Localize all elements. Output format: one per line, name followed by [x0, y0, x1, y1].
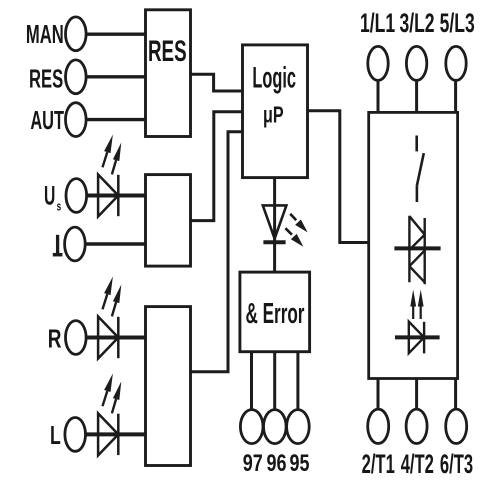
block RES (reset logic) [146, 10, 191, 137]
wire Error to terminal 95 [296, 352, 299, 410]
optocoupler light arrows [412, 305, 414, 320]
LED status (error indicator) [263, 205, 287, 238]
wire Logic to R-L block [191, 132, 243, 372]
wire RES block to Logic [191, 74, 243, 91]
block power supply monitor [146, 175, 191, 267]
wire output block to 4/T2 [415, 379, 418, 410]
triac (semiconductor output) [408, 216, 410, 282]
svg-text:97: 97 [243, 450, 263, 476]
wire RES to RES block [86, 75, 145, 78]
wire 5/L3 to output block [454, 80, 457, 112]
svg-text:96: 96 [266, 450, 286, 476]
terminal R [66, 321, 87, 355]
wire Us to power block [87, 194, 146, 198]
wire output block to 6/T3 [454, 379, 457, 410]
svg-text:4/T2: 4/T2 [401, 449, 434, 479]
terminal 96 [264, 410, 287, 444]
wire output block to 2/T1 [377, 379, 380, 410]
svg-text:1/L1: 1/L1 [360, 7, 395, 38]
terminal RES [66, 60, 87, 94]
block AND-Error [240, 272, 310, 352]
svg-text:3/L2: 3/L2 [399, 7, 434, 38]
svg-text:95: 95 [289, 450, 309, 476]
wire power block to Logic [191, 112, 243, 221]
terminal 6/T3 [446, 409, 467, 443]
terminal 1/L1 [368, 46, 388, 80]
photothyristor (opto driver) [409, 322, 424, 354]
svg-text:RES: RES [29, 64, 63, 94]
wire R to R-L block [86, 336, 145, 340]
LED R (right rotation indicator) [98, 317, 118, 359]
terminal MAN [66, 17, 87, 51]
block R-L drive [146, 307, 191, 466]
terminal AUT [66, 103, 87, 137]
svg-text:R: R [48, 324, 62, 354]
terminal ground [65, 227, 86, 261]
terminal L [65, 418, 86, 452]
svg-text:& Error: & Error [246, 298, 305, 331]
relay contact (bypass switch) [415, 136, 418, 152]
wire Logic to status LED [273, 178, 276, 273]
wire AUT to RES block [86, 118, 145, 121]
svg-text:L: L [50, 421, 61, 450]
wire L to R-L block [86, 432, 146, 436]
LED L (left rotation indicator) [98, 413, 118, 455]
triac gate bar [394, 246, 440, 250]
wire Error to terminal 96 [273, 352, 276, 410]
svg-text:6/T3: 6/T3 [440, 449, 473, 479]
terminal 4/T2 [406, 409, 427, 443]
block output power stage [369, 112, 458, 378]
wire Logic to power stage gate [308, 111, 369, 243]
wire 1/L1 to output block [377, 80, 380, 112]
svg-text:MAN: MAN [26, 19, 64, 49]
terminal 97 [240, 410, 263, 444]
svg-text:U: U [44, 180, 55, 211]
wire MAN to RES block [86, 33, 145, 36]
terminal 95 [287, 410, 310, 444]
wire Error to terminal 97 [250, 352, 253, 410]
svg-text:RES: RES [148, 36, 187, 68]
svg-text:5/L3: 5/L3 [440, 7, 475, 38]
ground symbol [56, 235, 59, 254]
terminal 5/L3 [446, 46, 466, 80]
svg-text:s: s [57, 200, 62, 214]
LED Us (supply indicator) [98, 175, 118, 217]
svg-text:AUT: AUT [30, 105, 64, 135]
svg-text:μP: μP [263, 103, 284, 128]
terminal Us [66, 179, 87, 213]
terminal 2/T1 [368, 409, 389, 443]
svg-text:Logic: Logic [252, 61, 296, 95]
wire ground to power block [85, 242, 145, 245]
wire 3/L2 to output block [415, 80, 418, 112]
block Logic uP [243, 45, 308, 178]
svg-text:2/T1: 2/T1 [362, 449, 395, 479]
terminal 3/L2 [406, 46, 426, 80]
